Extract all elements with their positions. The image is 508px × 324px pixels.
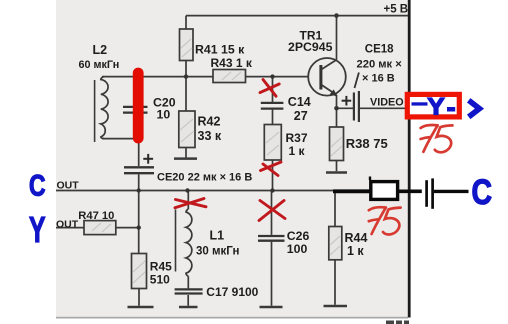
svg-text:CE18: CE18 [365, 43, 394, 55]
svg-text:33 к: 33 к [198, 129, 222, 143]
svg-text:CE20 22 мк × 16 В: CE20 22 мк × 16 В [157, 172, 252, 184]
svg-text:100: 100 [287, 242, 308, 256]
svg-text:× 16 В: × 16 В [362, 72, 395, 84]
svg-text:R45: R45 [150, 260, 172, 274]
svg-text:220 мк ×: 220 мк × [357, 58, 403, 70]
svg-text:R38 75: R38 75 [346, 136, 388, 151]
svg-text:C17 9100: C17 9100 [206, 285, 258, 299]
svg-text:C: C [29, 169, 46, 202]
svg-text:R47 10: R47 10 [78, 210, 114, 222]
svg-text:2PC945: 2PC945 [288, 40, 333, 54]
svg-text:L2: L2 [93, 43, 108, 57]
svg-text:R41 15 к: R41 15 к [195, 42, 245, 56]
svg-text:Y: Y [427, 94, 445, 121]
svg-text:30 мкГн: 30 мкГн [196, 245, 239, 257]
svg-text:510: 510 [150, 273, 170, 287]
svg-text:27: 27 [294, 109, 308, 123]
svg-text:L1: L1 [210, 229, 225, 243]
svg-text:C14: C14 [288, 95, 311, 109]
svg-text:60 мкГн: 60 мкГн [79, 59, 120, 71]
svg-text:R37: R37 [286, 131, 308, 145]
svg-text:VIDEO: VIDEO [370, 97, 404, 109]
svg-text:C26: C26 [287, 229, 310, 243]
svg-text:R43 1 к: R43 1 к [211, 56, 253, 70]
svg-text:1 к: 1 к [347, 244, 364, 258]
svg-text:Y: Y [29, 209, 46, 250]
svg-text:R44: R44 [345, 231, 368, 245]
svg-text:+5 В: +5 В [384, 3, 409, 15]
svg-text:OUT: OUT [56, 219, 79, 231]
svg-text:OUT: OUT [57, 180, 80, 192]
svg-text:10: 10 [157, 108, 171, 122]
svg-text:C: C [472, 173, 493, 212]
svg-text:1 к: 1 к [289, 144, 306, 158]
svg-text:R42: R42 [198, 115, 221, 129]
